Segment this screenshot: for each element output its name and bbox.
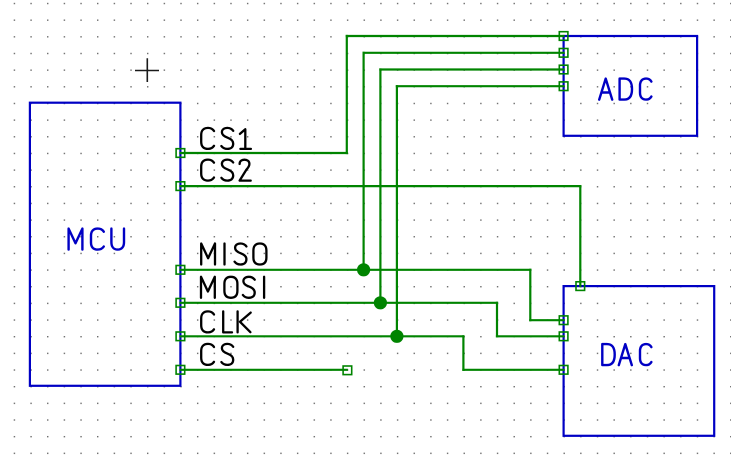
- wire CS1 top horizontal to ADC pin 1: [347, 35, 564, 37]
- wire MOSI branch vertical: [379, 70, 381, 303]
- label ADC: [599, 79, 651, 100]
- MCU pin CLK: [176, 332, 185, 341]
- block DAC: [564, 286, 715, 436]
- MCU pin CS2: [176, 182, 185, 191]
- wire CLK horizontal from MCU pin: [180, 335, 463, 337]
- net label CLK: [201, 311, 251, 332]
- wire MISO branch horizontal to ADC pin 2: [364, 52, 564, 54]
- DAC pin 3: [559, 366, 568, 375]
- unconnected wire end square CS: [343, 366, 352, 375]
- net label MOSI: [201, 277, 264, 298]
- ADC pin 3: [559, 65, 568, 74]
- net label CS: [201, 344, 233, 365]
- ADC pin 2: [559, 49, 568, 58]
- wire CS2 vertical to DAC top pin: [579, 186, 581, 286]
- DAC top pin: [576, 282, 585, 291]
- net label CS2: [201, 160, 251, 181]
- block MCU: [30, 103, 181, 386]
- wire MOSI horizontal to DAC pin 2: [497, 335, 564, 337]
- wire MISO branch vertical: [363, 53, 365, 270]
- MCU pin MISO: [176, 266, 185, 275]
- origin cross marker: [135, 58, 159, 82]
- wire CLK branch horizontal to ADC pin 4: [397, 85, 564, 87]
- net label MISO: [201, 244, 266, 265]
- wire CLK branch vertical: [396, 86, 398, 336]
- block ADC: [564, 36, 698, 136]
- DAC pin 2: [559, 332, 568, 341]
- wire CLK vertical jog: [462, 336, 464, 370]
- wire MISO vertical jog: [529, 270, 531, 320]
- DAC pin 1: [559, 316, 568, 325]
- MCU pin CS: [176, 366, 185, 375]
- MCU pin CS1: [176, 149, 185, 158]
- junction MOSI-ADC branch: [374, 296, 387, 309]
- wire CLK horizontal to DAC pin 3: [463, 369, 563, 371]
- wire CS1 vertical riser: [346, 36, 348, 153]
- junction CLK-ADC branch: [390, 330, 403, 343]
- ADC pin 1: [559, 32, 568, 41]
- wire MOSI horizontal from MCU pin: [180, 302, 497, 304]
- wire MISO horizontal to DAC pin 1: [530, 319, 563, 321]
- wire MISO horizontal from MCU pin: [180, 269, 530, 271]
- label DAC: [602, 344, 651, 365]
- wire CS horizontal stub: [180, 369, 346, 371]
- wire CS1 horizontal from MCU pin: [180, 152, 346, 154]
- wire MOSI vertical jog: [496, 303, 498, 337]
- label MCU: [69, 229, 124, 250]
- wire MOSI branch horizontal to ADC pin 3: [380, 68, 563, 70]
- net label CS1: [201, 128, 251, 149]
- ADC pin 4: [559, 82, 568, 91]
- wire CS2 horizontal from MCU pin: [180, 185, 580, 187]
- junction MISO-ADC branch: [357, 263, 370, 276]
- MCU pin MOSI: [176, 299, 185, 308]
